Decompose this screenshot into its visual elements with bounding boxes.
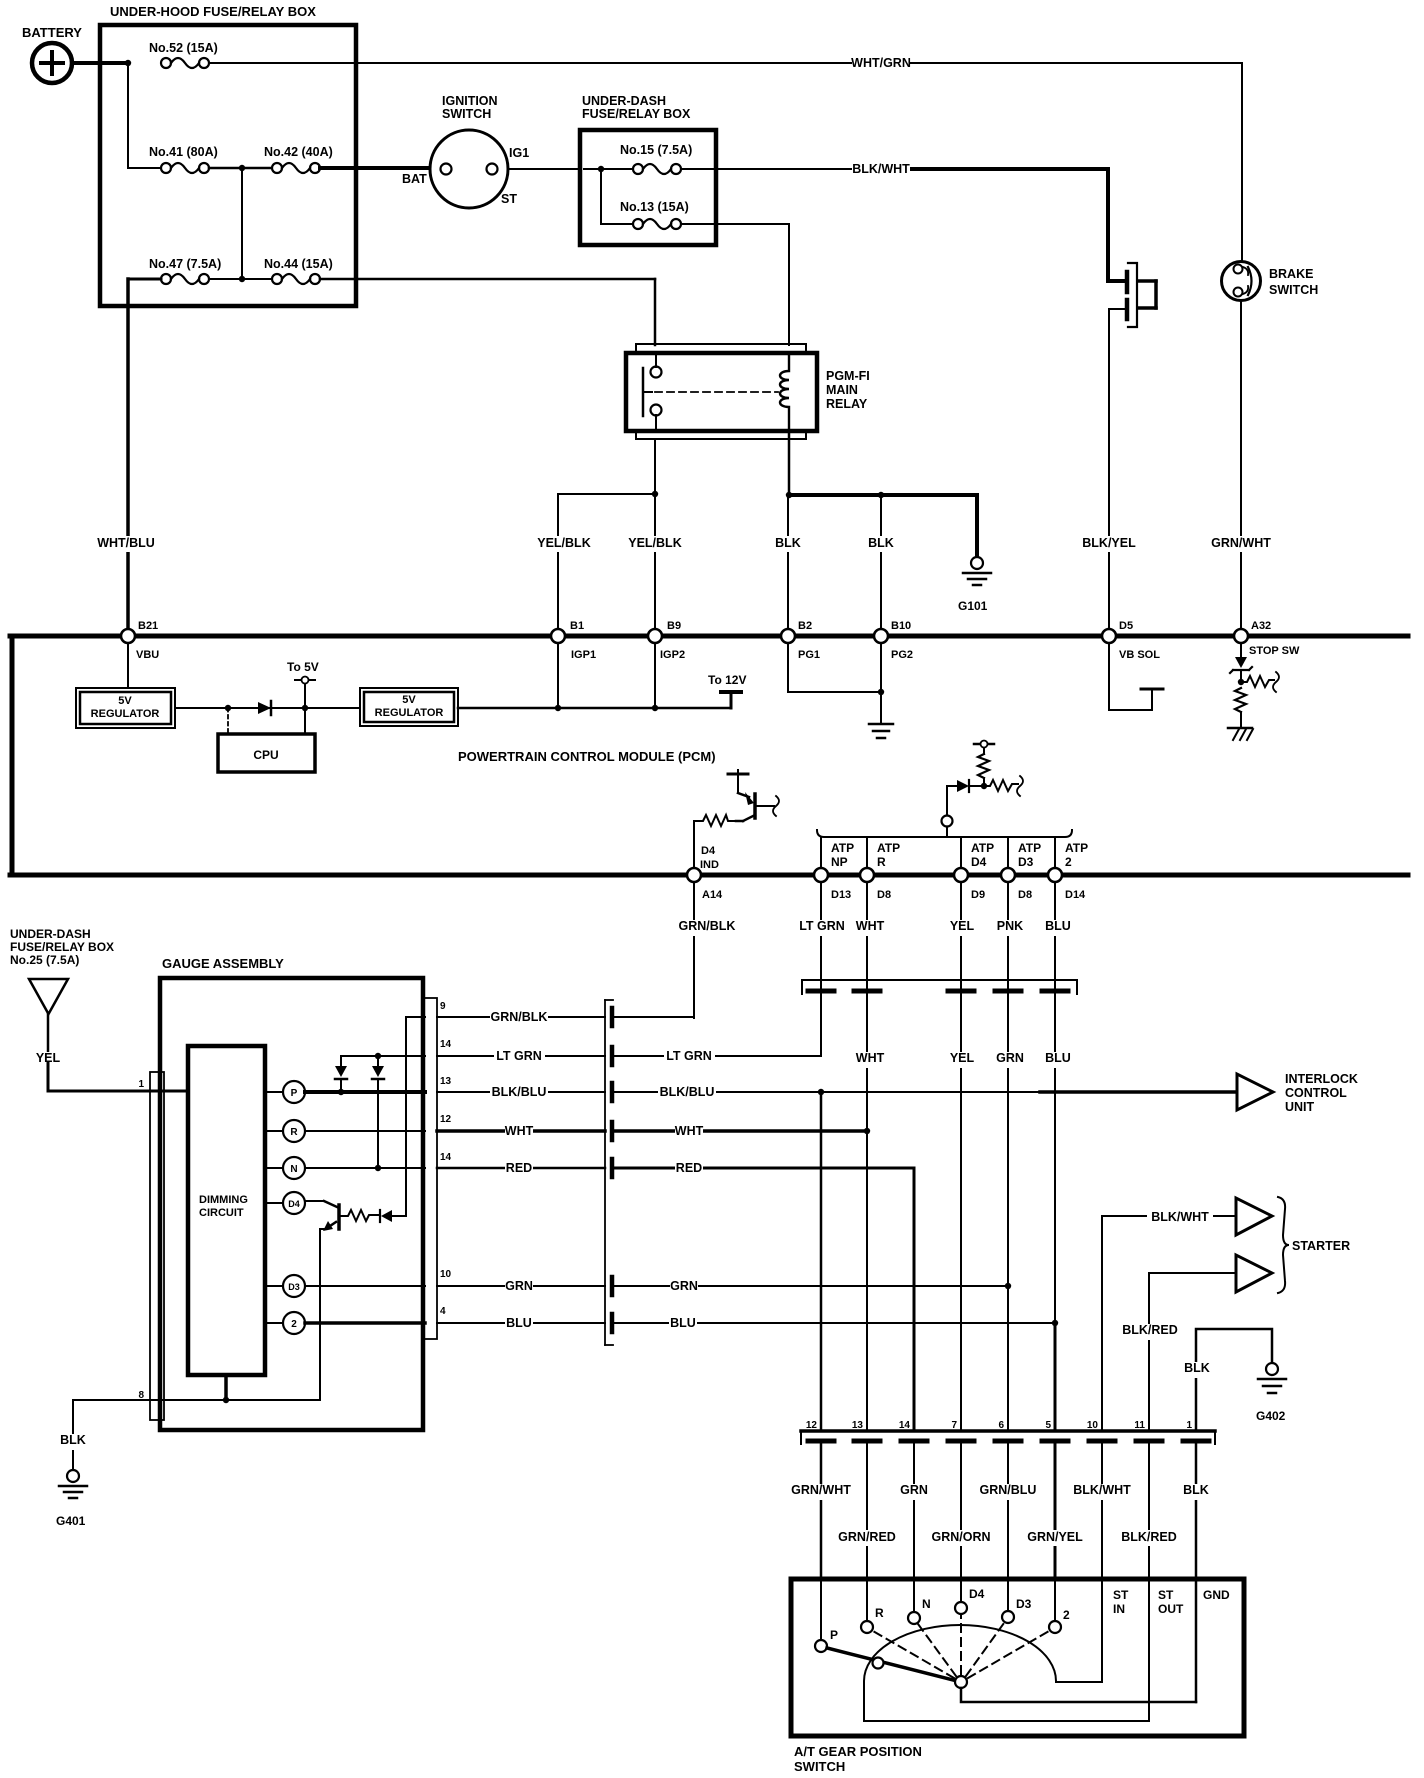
rotor arm to P [827, 1648, 961, 1682]
junction stop sw [1238, 679, 1244, 685]
D4 IND driver transistor [694, 770, 779, 871]
wire regulator1 to regulator2 [175, 707, 359, 709]
svg-text:GRN: GRN [900, 1483, 928, 1497]
PCM terminal D8 [1001, 868, 1032, 901]
battery [22, 25, 82, 83]
svg-text:2: 2 [1063, 1608, 1070, 1622]
diode in CPU supply [258, 701, 271, 715]
svg-text:13: 13 [440, 1076, 452, 1087]
wire ST OUT to arc start [864, 1580, 1149, 1721]
svg-text:NP: NP [831, 855, 848, 869]
svg-text:No.13 (15A): No.13 (15A) [620, 200, 689, 214]
internal LT GRN wire [341, 1055, 425, 1057]
svg-text:CONTROL: CONTROL [1285, 1086, 1347, 1100]
svg-text:4: 4 [440, 1306, 446, 1317]
relay coil [780, 355, 789, 429]
svg-text:BLK/WHT: BLK/WHT [1073, 1483, 1131, 1497]
svg-text:IN: IN [1113, 1602, 1125, 1616]
svg-text:IGP2: IGP2 [660, 649, 685, 661]
svg-text:BLU: BLU [506, 1316, 532, 1330]
wire GRN gauge to connector [437, 1285, 605, 1287]
svg-text:RED: RED [506, 1161, 532, 1175]
svg-text:N: N [290, 1164, 297, 1175]
wire WHT down to pin 13 [866, 1131, 868, 1430]
wire P to connector [305, 1090, 425, 1094]
wire IG1 to under-dash box [508, 168, 580, 170]
wire RED to pin 14 [614, 1168, 914, 1430]
PCM terminal D9 [954, 868, 985, 901]
svg-text:A/T GEAR POSITION: A/T GEAR POSITION [794, 1744, 922, 1759]
svg-text:GRN: GRN [996, 1051, 1024, 1065]
wire GRN below connector [1007, 995, 1009, 1286]
gauge left connector [138, 1072, 164, 1420]
inline connector C gauge harness [605, 1000, 613, 1345]
svg-text:STOP SW: STOP SW [1249, 645, 1300, 657]
svg-text:IGP1: IGP1 [571, 649, 596, 661]
junction To 5V [302, 705, 308, 711]
junction IGP2 [652, 705, 658, 711]
wire BLK to G401 [72, 1400, 74, 1470]
ATP node [942, 816, 953, 827]
connector pair BLK/WHT to BLK/YEL [1108, 263, 1156, 327]
relay internal wires [655, 355, 657, 367]
svg-text:UNDER-HOOD FUSE/RELAY BOX: UNDER-HOOD FUSE/RELAY BOX [110, 4, 316, 19]
wire LT GRN from D13 [820, 882, 822, 995]
transistor base bar [337, 1205, 341, 1229]
junction diode 2 top [375, 1053, 381, 1059]
svg-text:BLK/BLU: BLK/BLU [492, 1085, 547, 1099]
svg-text:G401: G401 [56, 1514, 86, 1528]
To 12V terminal [708, 673, 746, 708]
wire to CPU [304, 708, 306, 734]
wire GRN/BLK from A14 [693, 882, 695, 1018]
svg-text:B21: B21 [138, 620, 158, 632]
wire WHT below connector [866, 995, 868, 1131]
svg-text:IG1: IG1 [509, 146, 529, 160]
wire R to connector [305, 1130, 425, 1132]
svg-text:IND: IND [700, 859, 719, 871]
svg-text:GRN/BLK: GRN/BLK [679, 919, 736, 933]
svg-text:RED: RED [676, 1161, 702, 1175]
svg-text:A32: A32 [1251, 620, 1271, 632]
gauge indicator 2 [265, 1312, 305, 1334]
brake switch [1222, 262, 1319, 301]
gauge indicator D3 [265, 1275, 305, 1297]
gauge assembly box [160, 956, 423, 1430]
wire relay contact to B9 and B1 YEL/BLK [654, 439, 656, 630]
svg-text:D3: D3 [1016, 1597, 1032, 1611]
svg-text:ATP: ATP [877, 841, 900, 855]
junction BLK/BLU to gear switch P [818, 1089, 824, 1095]
svg-text:GRN/YEL: GRN/YEL [1027, 1530, 1083, 1544]
collector resistor [341, 1210, 378, 1221]
wire LT GRN below connector [820, 995, 822, 1056]
ATP stub 2 [1055, 837, 1088, 869]
svg-text:7: 7 [951, 1420, 957, 1431]
svg-text:FUSE/RELAY BOX: FUSE/RELAY BOX [10, 940, 114, 954]
under-hood fuse/relay box [100, 4, 356, 306]
connector triangle from fuse No.25 [29, 979, 68, 1014]
svg-text:G101: G101 [958, 599, 988, 613]
wire D5 VB SOL internal [1108, 643, 1110, 710]
relay contact bottom [651, 405, 662, 416]
svg-text:No.15 (7.5A): No.15 (7.5A) [620, 143, 692, 157]
wire N to connector [305, 1167, 425, 1169]
PCM terminal D8 [860, 868, 891, 901]
rotor arc [864, 1625, 1056, 1681]
svg-text:PGM-FI: PGM-FI [826, 369, 870, 383]
wire BLK to G402 [1196, 1329, 1272, 1430]
svg-text:GRN/RED: GRN/RED [838, 1530, 896, 1544]
wire No.42 output to ignition switch BAT [320, 166, 440, 170]
relay contact top [651, 367, 662, 378]
wire GRN/YEL to switch [1054, 1444, 1057, 1580]
zener diode [1235, 657, 1247, 668]
junction YEL/BLK split [652, 491, 658, 497]
svg-text:2: 2 [291, 1319, 297, 1330]
switch contact P [815, 1580, 838, 1652]
svg-text:14: 14 [440, 1039, 452, 1050]
svg-text:GRN/ORN: GRN/ORN [931, 1530, 990, 1544]
wire pin 8 to dimming ground [73, 1399, 320, 1401]
base lead with brace [757, 805, 774, 807]
wire No.13 output to PGM-FI relay coil [681, 223, 789, 225]
STOP SW input network [1228, 643, 1279, 740]
svg-text:GRN: GRN [505, 1279, 533, 1293]
svg-text:BAT: BAT [402, 172, 427, 186]
svg-text:STARTER: STARTER [1292, 1239, 1350, 1253]
junction BLU [1052, 1320, 1058, 1326]
gauge right connector [424, 998, 452, 1339]
PCM terminal B10 PG2 [874, 620, 913, 661]
ATP stub NP [821, 837, 854, 869]
wire PNK from D8 [1007, 882, 1009, 995]
svg-text:No.42 (40A): No.42 (40A) [264, 145, 333, 159]
wire GND pin into switch [1195, 1580, 1198, 1702]
emitter with arrow [327, 1222, 336, 1228]
svg-text:OUT: OUT [1158, 1602, 1184, 1616]
svg-text:LT GRN: LT GRN [666, 1049, 712, 1063]
svg-text:GRN: GRN [670, 1279, 698, 1293]
svg-text:G402: G402 [1256, 1409, 1286, 1423]
svg-text:14: 14 [899, 1420, 911, 1431]
wire up to pin 9 [405, 1017, 407, 1216]
svg-text:BRAKE: BRAKE [1269, 267, 1313, 281]
wire GRN/BLU to switch [1007, 1444, 1009, 1580]
svg-text:SWITCH: SWITCH [442, 107, 491, 121]
svg-text:BLU: BLU [1045, 919, 1071, 933]
svg-text:No.25 (7.5A): No.25 (7.5A) [10, 953, 79, 967]
wire GRN/WHT down to pin 12 [820, 1092, 823, 1430]
svg-text:BLK: BLK [1183, 1483, 1209, 1497]
wire No.15 output BLK/WHT [681, 168, 914, 170]
fuse No.15 (7.5A) [620, 143, 692, 174]
wire YEL from D9 [960, 882, 962, 995]
diode to N [372, 1056, 384, 1168]
wire WHT gauge to connector [437, 1129, 605, 1133]
wire No.52 output WHT/GRN [209, 62, 1242, 64]
PCM terminal A14 [687, 868, 723, 901]
svg-text:P: P [830, 1628, 838, 1642]
under-dash fuse/relay box [580, 94, 716, 245]
PCM terminal B9 IGP2 [648, 620, 685, 661]
svg-text:No.41 (80A): No.41 (80A) [149, 145, 218, 159]
svg-text:5V: 5V [402, 694, 416, 706]
svg-text:B2: B2 [798, 620, 812, 632]
svg-text:RELAY: RELAY [826, 397, 868, 411]
svg-text:DIMMING: DIMMING [199, 1194, 248, 1206]
wire BLK to switch [1195, 1444, 1198, 1580]
svg-text:SWITCH: SWITCH [794, 1759, 845, 1774]
switch contact N [908, 1580, 931, 1624]
wire BLU from D14 [1054, 882, 1056, 995]
wire to G101 [975, 495, 979, 557]
ground G101 [971, 557, 983, 569]
svg-text:5V: 5V [118, 695, 132, 707]
svg-text:12: 12 [440, 1114, 452, 1125]
svg-text:B10: B10 [891, 620, 911, 632]
PCM terminal A32 STOP SW [1234, 620, 1300, 657]
svg-text:BLK/WHT: BLK/WHT [852, 162, 910, 176]
5V regulator 2 [360, 688, 458, 726]
VB SOL terminator [1141, 688, 1163, 691]
svg-text:D8: D8 [877, 889, 891, 901]
svg-text:9: 9 [440, 1001, 446, 1012]
svg-text:WHT: WHT [856, 919, 885, 933]
svg-text:1: 1 [1186, 1420, 1192, 1431]
svg-text:BLK/BLU: BLK/BLU [660, 1085, 715, 1099]
wire BLU to D14 riser [614, 1322, 1055, 1324]
wire No.41 to No.42 [209, 167, 272, 170]
wire BLK/BLU gauge to connector [437, 1091, 605, 1093]
wires IGP down [557, 643, 559, 708]
svg-text:GRN/WHT: GRN/WHT [791, 1483, 851, 1497]
dimming transistor Q [305, 1017, 425, 1400]
fuse No.44 (15A) [264, 257, 333, 284]
svg-text:D4: D4 [971, 855, 987, 869]
fuse No.42 (40A) [264, 145, 333, 173]
wire WHT/GRN down to brake switch [1241, 63, 1243, 261]
wire GRN/BLK gauge to connector [437, 1016, 605, 1018]
junction WHT [864, 1128, 870, 1134]
junction IGP1 [555, 705, 561, 711]
svg-text:MAIN: MAIN [826, 383, 858, 397]
svg-text:To 12V: To 12V [708, 673, 746, 687]
rotor dash to N [918, 1624, 956, 1676]
wire battery junction down to row 2 [127, 63, 129, 168]
ATP pull-up network [817, 741, 1072, 838]
PCM terminal B1 IGP1 [551, 620, 596, 661]
rotor dash to D3 [966, 1623, 1004, 1676]
PCM terminal B2 PG1 [781, 620, 820, 661]
wire GRN to D3 riser [614, 1285, 1008, 1287]
svg-text:ATP: ATP [1018, 841, 1041, 855]
PCM terminal D14 [1048, 868, 1086, 901]
wire BLK/RED down to pin 11 [1148, 1273, 1150, 1430]
svg-text:6: 6 [998, 1420, 1004, 1431]
svg-text:B1: B1 [570, 620, 584, 632]
svg-text:ST: ST [1158, 1588, 1174, 1602]
svg-text:SWITCH: SWITCH [1269, 283, 1318, 297]
svg-text:VB SOL: VB SOL [1119, 649, 1160, 661]
svg-text:GAUGE ASSEMBLY: GAUGE ASSEMBLY [162, 956, 284, 971]
svg-text:WHT/GRN: WHT/GRN [851, 56, 911, 70]
wire GRN/WHT brake switch to A32 [1240, 301, 1242, 630]
resistor to ground [1235, 688, 1246, 712]
wire No.44 output to relay [320, 278, 655, 281]
wire B2 below bus to ground [787, 643, 789, 692]
svg-text:YEL/BLK: YEL/BLK [537, 536, 590, 550]
chassis ground [1228, 727, 1252, 730]
svg-text:No.47 (7.5A): No.47 (7.5A) [149, 257, 221, 271]
svg-text:UNDER-DASH: UNDER-DASH [10, 927, 91, 941]
svg-text:POWERTRAIN CONTROL MODULE (PCM: POWERTRAIN CONTROL MODULE (PCM) [458, 749, 716, 764]
PCM terminal D13 [814, 868, 851, 901]
svg-text:13: 13 [852, 1420, 864, 1431]
svg-text:PG1: PG1 [798, 649, 820, 661]
junction CPU left [225, 705, 231, 711]
svg-text:D4: D4 [288, 1199, 300, 1209]
wire to A14 [693, 821, 695, 868]
svg-text:YEL/BLK: YEL/BLK [628, 536, 681, 550]
svg-text:14: 14 [440, 1152, 452, 1163]
wire into No.41 [128, 167, 161, 169]
junction B2 drop [786, 492, 792, 498]
collector diode [379, 1210, 381, 1222]
svg-text:To 5V: To 5V [287, 660, 319, 674]
svg-text:INTERLOCK: INTERLOCK [1285, 1072, 1358, 1086]
svg-text:ATP: ATP [831, 841, 854, 855]
svg-text:B9: B9 [667, 620, 681, 632]
gauge indicator R [265, 1120, 305, 1142]
svg-text:ATP: ATP [1065, 841, 1088, 855]
fuse No.41 (80A) [149, 145, 218, 173]
dimming circuit ground stub [224, 1375, 228, 1400]
svg-text:D3: D3 [288, 1282, 300, 1292]
wire BLU below connector [1054, 995, 1056, 1323]
junction between No.41 and No.42 [239, 165, 245, 171]
wire GRN/RED to switch [866, 1444, 868, 1580]
wire BLK/RED to switch [1148, 1444, 1150, 1580]
relay switch contact bar [642, 368, 645, 416]
svg-text:R: R [877, 855, 886, 869]
svg-text:P: P [291, 1088, 298, 1099]
svg-text:WHT: WHT [856, 1051, 885, 1065]
svg-text:D4: D4 [969, 1587, 985, 1601]
svg-text:1: 1 [138, 1079, 144, 1090]
wire WHT to D8 riser [614, 1129, 867, 1133]
svg-text:BLK/WHT: BLK/WHT [1151, 1210, 1209, 1224]
svg-text:10: 10 [440, 1269, 452, 1280]
svg-text:D8: D8 [1018, 889, 1032, 901]
5V regulator 1 [76, 688, 175, 728]
svg-text:BLK/RED: BLK/RED [1121, 1530, 1177, 1544]
ATP bracket [817, 830, 1072, 837]
svg-text:R: R [290, 1127, 298, 1138]
gauge indicator N [265, 1157, 305, 1179]
svg-text:5: 5 [1045, 1420, 1051, 1431]
svg-text:GND: GND [1203, 1588, 1230, 1602]
switch contact D3 [1002, 1580, 1032, 1623]
svg-text:REGULATOR: REGULATOR [91, 708, 160, 720]
svg-text:BLU: BLU [1045, 1051, 1071, 1065]
svg-text:2: 2 [1065, 855, 1072, 869]
interlock control unit [1237, 1072, 1358, 1114]
switch contact R [861, 1580, 884, 1633]
wire WHT from D8 [866, 882, 868, 995]
wire regulator2 to IGP rails [458, 707, 731, 710]
ground G402 [1256, 1363, 1286, 1423]
wire into No.15 [584, 168, 633, 170]
rotor common wire to GND [961, 1688, 1196, 1702]
wire No.47 right side [209, 278, 272, 280]
wire ST IN to arc end [1056, 1580, 1102, 1682]
svg-text:CPU: CPU [253, 748, 278, 762]
starter brace [1278, 1197, 1289, 1293]
PGM-FI main relay [626, 344, 870, 439]
svg-text:D5: D5 [1119, 620, 1133, 632]
svg-text:No.44 (15A): No.44 (15A) [264, 257, 333, 271]
junction GRN [1005, 1283, 1011, 1289]
svg-text:BLK: BLK [1184, 1361, 1210, 1375]
svg-text:IGNITION: IGNITION [442, 94, 498, 108]
wire BLK/BLU to interlock [614, 1091, 1040, 1093]
svg-text:BLK: BLK [60, 1433, 86, 1447]
svg-text:WHT/BLU: WHT/BLU [97, 536, 155, 550]
wire YEL to gauge pin 1 [47, 1014, 50, 1086]
ignition switch [402, 94, 529, 208]
diode to P [335, 1056, 347, 1092]
svg-text:LT GRN: LT GRN [799, 919, 845, 933]
svg-text:11: 11 [1134, 1420, 1145, 1431]
fuse No.47 (7.5A) [149, 257, 221, 284]
ATP stub R [867, 837, 900, 869]
wire BLK/WHT down to pin 10 [1101, 1216, 1103, 1430]
switch contact 2 [1049, 1580, 1070, 1633]
relay dashed actuator line [655, 391, 778, 393]
wire GRN/ORN to switch [960, 1444, 962, 1580]
svg-text:No.52 (15A): No.52 (15A) [149, 41, 218, 55]
svg-text:BLK/YEL: BLK/YEL [1082, 536, 1136, 550]
under-dash fuse/relay box No.25 label [10, 927, 114, 967]
svg-text:VBU: VBU [136, 649, 159, 661]
fuse No.13 (15A) [620, 200, 689, 229]
wire RED gauge to connector [437, 1167, 605, 1170]
A/T gear position switch box [791, 1579, 1244, 1774]
svg-text:PNK: PNK [997, 919, 1023, 933]
svg-text:D13: D13 [831, 889, 851, 901]
dashed wire to CPU [227, 708, 229, 734]
starter triangle 1 [1102, 1198, 1272, 1235]
internal ground symbol [869, 724, 893, 738]
fuse No.52 (15A) [149, 41, 218, 68]
PCM terminal B21 VBU [121, 620, 159, 661]
svg-text:R: R [875, 1606, 884, 1620]
svg-text:10: 10 [1087, 1420, 1099, 1431]
wire BLK/YEL to D5 [1108, 309, 1110, 630]
rotor dash to R [873, 1631, 954, 1678]
wire GRN/BLK connector to A14 riser [614, 1016, 694, 1018]
ground G401 [56, 1470, 87, 1528]
wire 2 to connector [305, 1321, 425, 1325]
svg-text:D14: D14 [1065, 889, 1086, 901]
wire relay coil to ground bus BLK [788, 431, 791, 495]
svg-text:CIRCUIT: CIRCUIT [199, 1207, 244, 1219]
wire BLU gauge to connector [437, 1322, 605, 1324]
svg-text:ST: ST [501, 192, 517, 206]
switch contact D4 [955, 1580, 985, 1614]
wire LT GRN gauge to connector [437, 1055, 605, 1057]
